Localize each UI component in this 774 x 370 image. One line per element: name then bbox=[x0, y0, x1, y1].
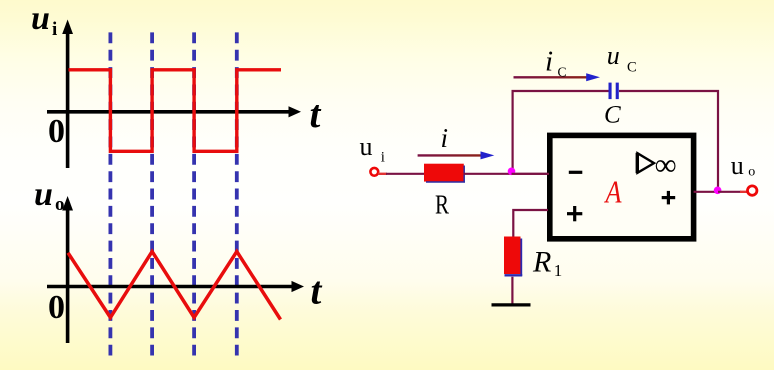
dashed grid line 2 bbox=[150, 32, 154, 355]
svg-text:C: C bbox=[558, 65, 567, 80]
op-amp non-inverting input plus sign bbox=[567, 206, 582, 221]
label u_o (output) bbox=[731, 151, 756, 180]
label u_i (input) bbox=[360, 132, 385, 166]
node B (output node) bbox=[714, 187, 722, 195]
label u_C bbox=[607, 41, 637, 76]
svg-text:u: u bbox=[607, 41, 620, 70]
capacitor C bbox=[609, 83, 619, 100]
svg-text:i: i bbox=[441, 123, 449, 153]
svg-text:R: R bbox=[532, 246, 551, 279]
label t (plot 1) bbox=[310, 93, 322, 136]
op-amp output plus sign bbox=[662, 191, 676, 205]
wire op-amp output to node B bbox=[694, 191, 718, 193]
label i (current) bbox=[441, 123, 449, 153]
wire input terminal to resistor R bbox=[378, 173, 424, 175]
svg-text:u: u bbox=[731, 151, 744, 180]
label t (plot 2) bbox=[311, 269, 323, 312]
label u_i (plot 1) bbox=[31, 0, 57, 40]
resistor R bbox=[424, 164, 465, 183]
dashed grid line 4 bbox=[235, 32, 239, 355]
input terminal u_i bbox=[370, 168, 378, 176]
svg-text:u: u bbox=[31, 0, 50, 37]
triangle wave u_o bbox=[68, 252, 281, 320]
label R1 bbox=[532, 246, 562, 281]
svg-text:C: C bbox=[604, 102, 621, 129]
wire R1 to ground bbox=[511, 277, 513, 304]
dashed grid line 1 bbox=[109, 32, 113, 355]
wire node B to output terminal bbox=[718, 191, 747, 193]
label 0 (plot 1) bbox=[48, 113, 65, 150]
wire op-amp inverting input (node A to box) bbox=[512, 173, 550, 175]
wire resistor R to node A bbox=[464, 173, 547, 175]
horizontal axis t of u_i plot bbox=[47, 106, 301, 117]
ground bbox=[492, 303, 531, 306]
svg-text:i: i bbox=[545, 46, 553, 78]
horizontal axis t of u_o plot bbox=[47, 281, 304, 292]
vertical axis of u_i plot bbox=[62, 20, 73, 169]
svg-text:t: t bbox=[310, 93, 322, 136]
output terminal u_o bbox=[748, 186, 757, 195]
svg-text:0: 0 bbox=[48, 113, 65, 150]
dashed grid line 3 bbox=[192, 32, 196, 355]
svg-text:0: 0 bbox=[48, 289, 65, 326]
svg-text:A: A bbox=[604, 174, 622, 210]
wire capacitor to output node bbox=[619, 91, 718, 190]
node A bbox=[508, 168, 516, 176]
current arrow i_C bbox=[514, 73, 601, 81]
op-amp inverting input minus sign bbox=[569, 171, 583, 174]
svg-text:∞: ∞ bbox=[655, 147, 677, 182]
label C (capacitor) bbox=[604, 102, 621, 129]
svg-text:R: R bbox=[435, 190, 449, 220]
svg-text:i: i bbox=[381, 150, 385, 166]
svg-text:o: o bbox=[55, 194, 65, 215]
square wave u_i bbox=[69, 70, 282, 152]
svg-text:t: t bbox=[311, 269, 323, 312]
op-amp U1 (block A) bbox=[550, 135, 694, 238]
svg-text:u: u bbox=[360, 132, 373, 161]
label i_C bbox=[545, 46, 567, 80]
wire node A up to capacitor branch bbox=[513, 91, 609, 171]
label u_o (plot 2) bbox=[34, 176, 65, 215]
svg-text:u: u bbox=[34, 176, 53, 213]
label R bbox=[435, 190, 449, 220]
svg-text:o: o bbox=[748, 165, 755, 180]
svg-text:1: 1 bbox=[554, 261, 563, 280]
svg-text:i: i bbox=[52, 19, 57, 40]
op-amp ideal symbol (triangle and infinity) bbox=[637, 147, 676, 182]
wire op-amp non-inverting input to R1 bbox=[513, 210, 548, 237]
label 0 (plot 2) bbox=[48, 289, 65, 326]
op-amp gain label A bbox=[604, 174, 622, 210]
current arrow i bbox=[418, 151, 495, 159]
svg-text:C: C bbox=[627, 60, 637, 76]
vertical axis of u_o plot bbox=[62, 196, 73, 343]
resistor R1 bbox=[504, 237, 522, 277]
